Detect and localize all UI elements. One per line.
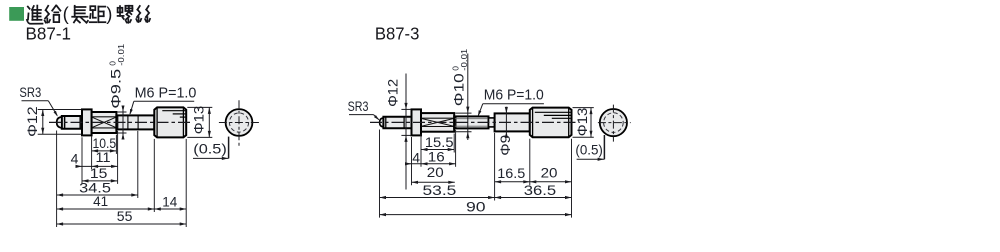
B87-3 phi9 shaft (495, 113, 530, 131)
svg-text:Φ13: Φ13 (574, 107, 590, 136)
svg-text:B87-3: B87-3 (375, 23, 420, 43)
svg-text:15.5: 15.5 (425, 135, 454, 150)
svg-text:15: 15 (90, 166, 108, 181)
svg-text:16: 16 (428, 149, 445, 164)
title char 給 (45, 6, 61, 23)
B87-1 dimension 10.5 (92, 150, 117, 152)
svg-text:SR3: SR3 (19, 84, 41, 100)
svg-text:(: ( (63, 3, 70, 24)
B87-1 dimension 41 and 14 (57, 208, 187, 210)
B87-3 dimension 15.5 (421, 149, 454, 151)
B87-3 label phi10 with tolerance, rotated (451, 48, 470, 106)
section marker (green square) (9, 7, 24, 21)
B87-3 phi10 dimension line and arrows (467, 54, 469, 141)
B87-1 end view circle (phi13) (226, 109, 253, 136)
svg-text:34.5: 34.5 (79, 180, 111, 195)
svg-text:M6 P=1.0: M6 P=1.0 (484, 86, 544, 103)
title char 絲 (136, 6, 150, 22)
B87-3 tip cylinder with SR3 dome (383, 117, 411, 129)
B87-1 tip cylinder with SR3 dome (62, 116, 82, 129)
svg-text:Φ9.5: Φ9.5 (108, 69, 124, 109)
svg-text:Φ13: Φ13 (190, 106, 206, 135)
B87-1 label phi9.5 with tolerance, rotated (108, 43, 127, 108)
svg-text:16.5: 16.5 (497, 166, 525, 181)
B87-3 thread-rolled box (phi10) with cross (421, 113, 454, 132)
svg-text:10.5: 10.5 (93, 136, 117, 151)
B87-1 dimension 15 (82, 180, 117, 182)
B87-1 centerline (49, 121, 192, 123)
svg-text:14: 14 (162, 194, 178, 209)
svg-text:(0.5): (0.5) (575, 142, 603, 157)
B87-3 flange (phi12) (412, 109, 422, 135)
B87-1 thread-rolled box (phi9.5) with cross (92, 112, 117, 133)
B87-1 phi9.5 dimension line and arrows (122, 107, 124, 140)
svg-text:SR3: SR3 (348, 98, 369, 114)
B87-3 dimension 16.5 and 20 (right) (495, 181, 572, 183)
svg-text:90: 90 (466, 199, 486, 214)
B87-1 tip groove lines (61, 116, 63, 129)
svg-text:M6 P=1.0: M6 P=1.0 (135, 85, 197, 102)
B87-3 M6 threaded shaft (454, 116, 488, 128)
B87-1 dimension 4 and 11 (76, 165, 118, 167)
svg-text:Φ12: Φ12 (385, 79, 401, 107)
svg-text:B87-1: B87-1 (26, 23, 72, 43)
B87-3 knurled knob (phi13) (530, 108, 572, 138)
svg-text:(0.5): (0.5) (193, 142, 227, 157)
B87-3 end view centerlines (598, 122, 631, 124)
B87-3 end view hidden circle (604, 113, 624, 133)
title char 進 (27, 6, 43, 24)
B87-3 dimension 53.5 and 36.5 (380, 197, 572, 199)
svg-text:): ) (106, 3, 112, 24)
svg-text:53.5: 53.5 (423, 183, 457, 198)
svg-text:Φ10: Φ10 (451, 73, 467, 106)
title char 螺 (118, 6, 133, 23)
B87-3 thread undercut (489, 118, 495, 127)
B87-1 end view hidden circle (229, 113, 248, 132)
B87-1 extension lines (56, 131, 58, 228)
B87-1 flange (phi12) (82, 109, 92, 135)
B87-1 dimension 34.5 (57, 194, 138, 196)
svg-text:41: 41 (93, 194, 108, 209)
title char 距 (90, 6, 106, 22)
svg-text:20: 20 (427, 165, 444, 180)
B87-3 extension lines (379, 130, 381, 218)
svg-text:-0.01: -0.01 (116, 43, 126, 65)
svg-text:Φ12: Φ12 (24, 106, 40, 137)
B87-3 dimension 90 (380, 214, 572, 216)
B87-1 M6 threaded shaft (116, 115, 154, 129)
title char 長 (72, 6, 88, 23)
B87-1 dimension 55 (57, 223, 187, 225)
B87-3 knob knurl lines (535, 111, 571, 113)
B87-3 end view circle (phi13) (600, 109, 627, 136)
B87-1 knurled knob (phi13) (154, 107, 186, 137)
svg-text:36.5: 36.5 (524, 183, 556, 198)
B87-1 knob knurl lines (162, 110, 185, 112)
B87-3 dimension 20 (left) (412, 181, 455, 183)
svg-text:4: 4 (71, 151, 79, 166)
svg-text:11: 11 (96, 150, 111, 165)
svg-text:4: 4 (412, 151, 420, 166)
B87-1 end view centerlines (219, 122, 259, 124)
svg-text:20: 20 (541, 165, 558, 180)
B87-3 dimension 4 and 16 (406, 163, 456, 165)
B87-3 centerline (370, 121, 579, 123)
svg-text:55: 55 (117, 209, 133, 224)
B87-3 tip groove lines (382, 117, 384, 128)
